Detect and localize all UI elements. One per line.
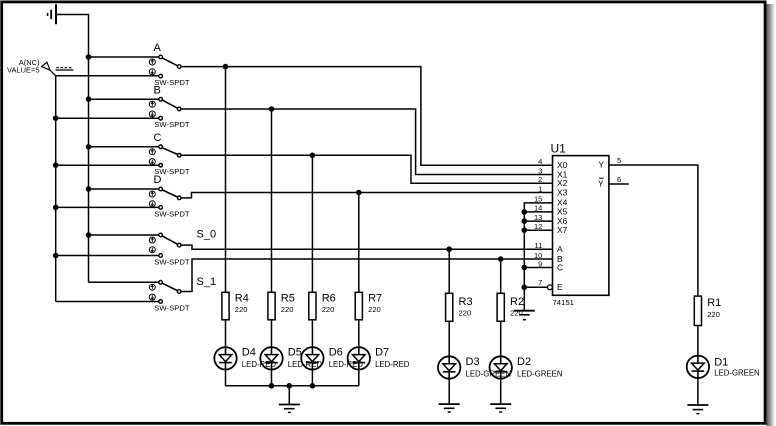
svg-text:LED-GREEN: LED-GREEN xyxy=(714,368,760,377)
svg-text:220: 220 xyxy=(235,305,248,314)
switch SWS_1 (SW-SPDT) xyxy=(149,281,181,304)
wire V5 bus to switch D bottom xyxy=(56,206,159,208)
svg-text:5: 5 xyxy=(617,156,621,165)
wire D4 to LED ground bus xyxy=(225,369,227,385)
junction D6 / LED bus xyxy=(310,383,316,389)
resistor R7 xyxy=(355,292,362,320)
junction GND bus / switch S_0 top wire xyxy=(86,232,92,238)
wire X7 stub xyxy=(524,229,552,231)
wire V5 bus to switch C bottom xyxy=(56,164,159,166)
svg-text:D1: D1 xyxy=(714,356,728,368)
junction GND bus / switch A top wire xyxy=(86,54,92,60)
svg-text:R1: R1 xyxy=(707,297,721,309)
svg-text:6: 6 xyxy=(617,175,621,184)
svg-text:D5: D5 xyxy=(288,346,302,358)
wire V5 bus to switch S_0 bottom xyxy=(56,255,159,257)
switch SWA (SW-SPDT) xyxy=(149,55,181,78)
op-amp U1 body (74151 multiplexer) xyxy=(553,156,609,296)
wire R1 to D1 xyxy=(697,326,699,356)
svg-text:SW-SPDT: SW-SPDT xyxy=(154,209,190,218)
svg-text:C: C xyxy=(154,132,162,144)
wire Ynot stub xyxy=(609,183,629,185)
wire X5 stub xyxy=(524,211,552,213)
switch SWC (SW-SPDT) xyxy=(149,145,181,167)
junction node B / R5 drop xyxy=(269,106,275,112)
junction GND bus / switch D top wire xyxy=(86,186,92,192)
switch SWD (SW-SPDT) xyxy=(149,187,181,209)
wire GND bus to switch C top xyxy=(89,146,159,148)
junction node S1 / R2 drop xyxy=(498,256,504,262)
junction pin C / bus xyxy=(522,265,528,271)
svg-text:R6: R6 xyxy=(322,293,336,305)
junction V5 bus / switch B bottom wire xyxy=(53,115,59,121)
svg-text:220: 220 xyxy=(510,309,523,318)
LED D4 xyxy=(214,347,236,369)
wire node to resistor R2 xyxy=(500,259,502,293)
LED D1 xyxy=(687,356,709,378)
junction node S0 / R3 drop xyxy=(446,246,452,252)
svg-text:220: 220 xyxy=(368,305,381,314)
wire GND bus to switch A top xyxy=(89,56,159,58)
ground (D2) xyxy=(490,404,511,412)
wire D3 to ground xyxy=(448,379,450,405)
svg-text:R2: R2 xyxy=(510,296,524,308)
junction X5 / bus xyxy=(522,209,528,215)
wire node to resistor R7 xyxy=(358,193,360,293)
svg-text:D4: D4 xyxy=(242,346,256,358)
wire Y output to R1 xyxy=(609,165,698,296)
junction GND bus / switch B top wire xyxy=(86,96,92,102)
svg-text:Y: Y xyxy=(598,179,604,189)
svg-text:D7: D7 xyxy=(375,346,389,358)
svg-text:LED-GREEN: LED-GREEN xyxy=(466,369,512,378)
wire switch C output to X2 (node C) xyxy=(181,155,553,183)
junction X6 / bus xyxy=(522,218,528,224)
GND bus vertical xyxy=(88,57,90,282)
wire V5 bus corner to switch S_1 bottom xyxy=(56,301,159,303)
svg-text:SW-SPDT: SW-SPDT xyxy=(154,303,190,312)
junction V5 bus / switch S_0 bottom wire xyxy=(53,253,59,259)
wire X6 stub xyxy=(524,220,552,222)
junction ground stem / LED bus xyxy=(287,383,293,389)
wire X4 stub and ground bus xyxy=(524,203,552,311)
voltage source flag A(NC) VALUE=5 xyxy=(42,62,74,76)
wire R4 to D4 xyxy=(225,320,227,347)
svg-text:74151: 74151 xyxy=(553,298,574,307)
svg-text:X3: X3 xyxy=(557,187,568,197)
wire D6 to LED ground bus xyxy=(311,369,313,385)
svg-text:S_1: S_1 xyxy=(197,276,217,288)
wire GND bus to switch B top xyxy=(89,98,159,100)
svg-text:SW-SPDT: SW-SPDT xyxy=(154,120,190,129)
LED D7 xyxy=(348,347,370,369)
wire D2 to ground xyxy=(500,379,502,405)
junction V5 bus / switch C bottom wire xyxy=(53,162,59,168)
junction node C / R6 drop xyxy=(310,153,316,159)
LED D6 xyxy=(301,347,323,369)
wire node to resistor R3 xyxy=(448,249,450,293)
resistor R3 xyxy=(446,293,453,321)
svg-text:D3: D3 xyxy=(466,356,480,368)
wire R6 to D6 xyxy=(311,320,313,347)
svg-text:2: 2 xyxy=(538,175,542,184)
junction V5 bus / switch D bottom wire xyxy=(53,205,59,211)
svg-text:R7: R7 xyxy=(368,293,382,305)
ground (D1) xyxy=(687,405,708,414)
svg-text:B: B xyxy=(154,84,161,96)
svg-text:S_0: S_0 xyxy=(197,229,217,241)
wire R3 to D3 xyxy=(448,321,450,356)
wire switch S_1 output to pin B (node S1) xyxy=(181,259,553,292)
wire LED bus to ground xyxy=(288,386,290,405)
wire pin E stub xyxy=(524,286,547,288)
LED D5 xyxy=(260,347,282,369)
V5 bus vertical xyxy=(55,76,57,302)
wire GND bus to switch D top xyxy=(89,188,159,190)
svg-text:220: 220 xyxy=(281,305,294,314)
wire D1 to ground xyxy=(697,378,699,405)
wire pin C stub xyxy=(524,267,552,269)
junction pin E / bus xyxy=(522,285,528,291)
resistor R5 xyxy=(268,292,275,320)
wire V5 bus to switch B bottom xyxy=(56,117,159,119)
wire node to resistor R4 xyxy=(225,67,227,293)
wire R7 to D7 xyxy=(358,320,360,347)
wire node to resistor R6 xyxy=(311,155,313,292)
resistor R2 xyxy=(497,293,504,321)
svg-text:R4: R4 xyxy=(235,293,249,305)
ground (top-left, rotated) xyxy=(48,4,56,24)
svg-text:LED-GREEN: LED-GREEN xyxy=(517,369,563,378)
svg-text:Y: Y xyxy=(598,160,604,170)
junction GND bus / switch C top wire xyxy=(86,144,92,150)
ground (D3) xyxy=(439,404,460,412)
switch SWS_0 (SW-SPDT) xyxy=(149,233,181,257)
svg-text:D: D xyxy=(154,174,162,186)
junction D5 / LED bus xyxy=(269,383,275,389)
junction X7 / bus xyxy=(522,227,528,233)
svg-text:220: 220 xyxy=(459,309,472,318)
ground (E pin bus) xyxy=(514,311,535,320)
svg-text:3: 3 xyxy=(538,166,542,175)
resistor R6 xyxy=(309,292,316,320)
svg-text:R5: R5 xyxy=(281,293,295,305)
svg-text:E: E xyxy=(557,282,563,292)
LED D3 xyxy=(438,356,460,378)
wire switch B output to X1 (node B) xyxy=(181,109,553,175)
svg-text:U1: U1 xyxy=(551,142,567,156)
svg-text:220: 220 xyxy=(322,305,335,314)
svg-text:1: 1 xyxy=(538,184,542,193)
wire R2 to D2 xyxy=(500,321,502,356)
wire GND bus to switch S_0 top xyxy=(89,234,159,236)
wire switch D output to X3 (node D) xyxy=(181,193,553,198)
switch SWB (SW-SPDT) xyxy=(149,97,181,120)
wire GND bus corner to switch S_1 top xyxy=(89,281,159,283)
wire D5 to LED ground bus xyxy=(271,369,273,385)
wire R5 to D5 xyxy=(271,320,273,347)
junction node A / R4 drop xyxy=(223,64,229,70)
svg-text:C: C xyxy=(557,262,563,272)
U1 pin E inverter bubble xyxy=(548,285,553,290)
LED ground bus (D4-D7) xyxy=(226,385,359,387)
wire switch S_0 output to pin A (node S0) xyxy=(181,245,553,249)
svg-text:7: 7 xyxy=(538,278,542,287)
wire V5 source to switch A bottom xyxy=(56,75,159,77)
svg-text:R3: R3 xyxy=(459,296,473,308)
resistor R4 xyxy=(222,292,229,320)
wire switch A output to X0 (node A) xyxy=(181,67,553,166)
svg-text:SW-SPDT: SW-SPDT xyxy=(154,257,190,266)
ground (LED bus D4-D7) xyxy=(279,405,300,413)
svg-text:X7: X7 xyxy=(557,225,568,235)
svg-text:4: 4 xyxy=(538,157,542,166)
resistor R1 xyxy=(694,296,701,325)
wire node to resistor R5 xyxy=(271,109,273,292)
svg-text:A: A xyxy=(557,244,563,254)
svg-text:D6: D6 xyxy=(329,346,343,358)
svg-text:220: 220 xyxy=(707,310,720,319)
LED D2 xyxy=(490,356,512,378)
wire D7 to LED ground bus xyxy=(358,369,360,385)
svg-text:11: 11 xyxy=(535,241,543,250)
svg-text:LED-RED: LED-RED xyxy=(375,360,410,369)
wire ground to GND bus elbow xyxy=(56,15,89,58)
svg-text:A: A xyxy=(154,42,162,54)
junction node D / R7 drop xyxy=(356,190,362,196)
svg-text:D2: D2 xyxy=(517,356,531,368)
svg-text:VALUE=5: VALUE=5 xyxy=(7,66,40,75)
